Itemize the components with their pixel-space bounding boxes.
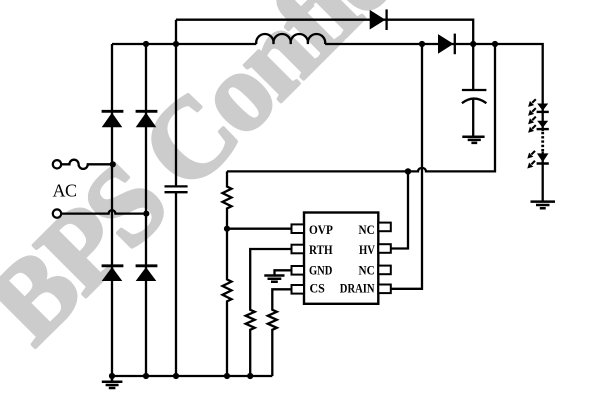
svg-text:DRAIN: DRAIN <box>340 281 375 296</box>
svg-text:GND: GND <box>309 262 332 277</box>
svg-text:NC: NC <box>359 263 375 278</box>
svg-text:CS: CS <box>310 281 325 296</box>
svg-text:HV: HV <box>359 242 375 257</box>
svg-text:OVP: OVP <box>309 222 333 237</box>
svg-text:NC: NC <box>359 222 375 237</box>
svg-text:AC: AC <box>53 181 77 201</box>
svg-text:RTH: RTH <box>309 242 333 257</box>
